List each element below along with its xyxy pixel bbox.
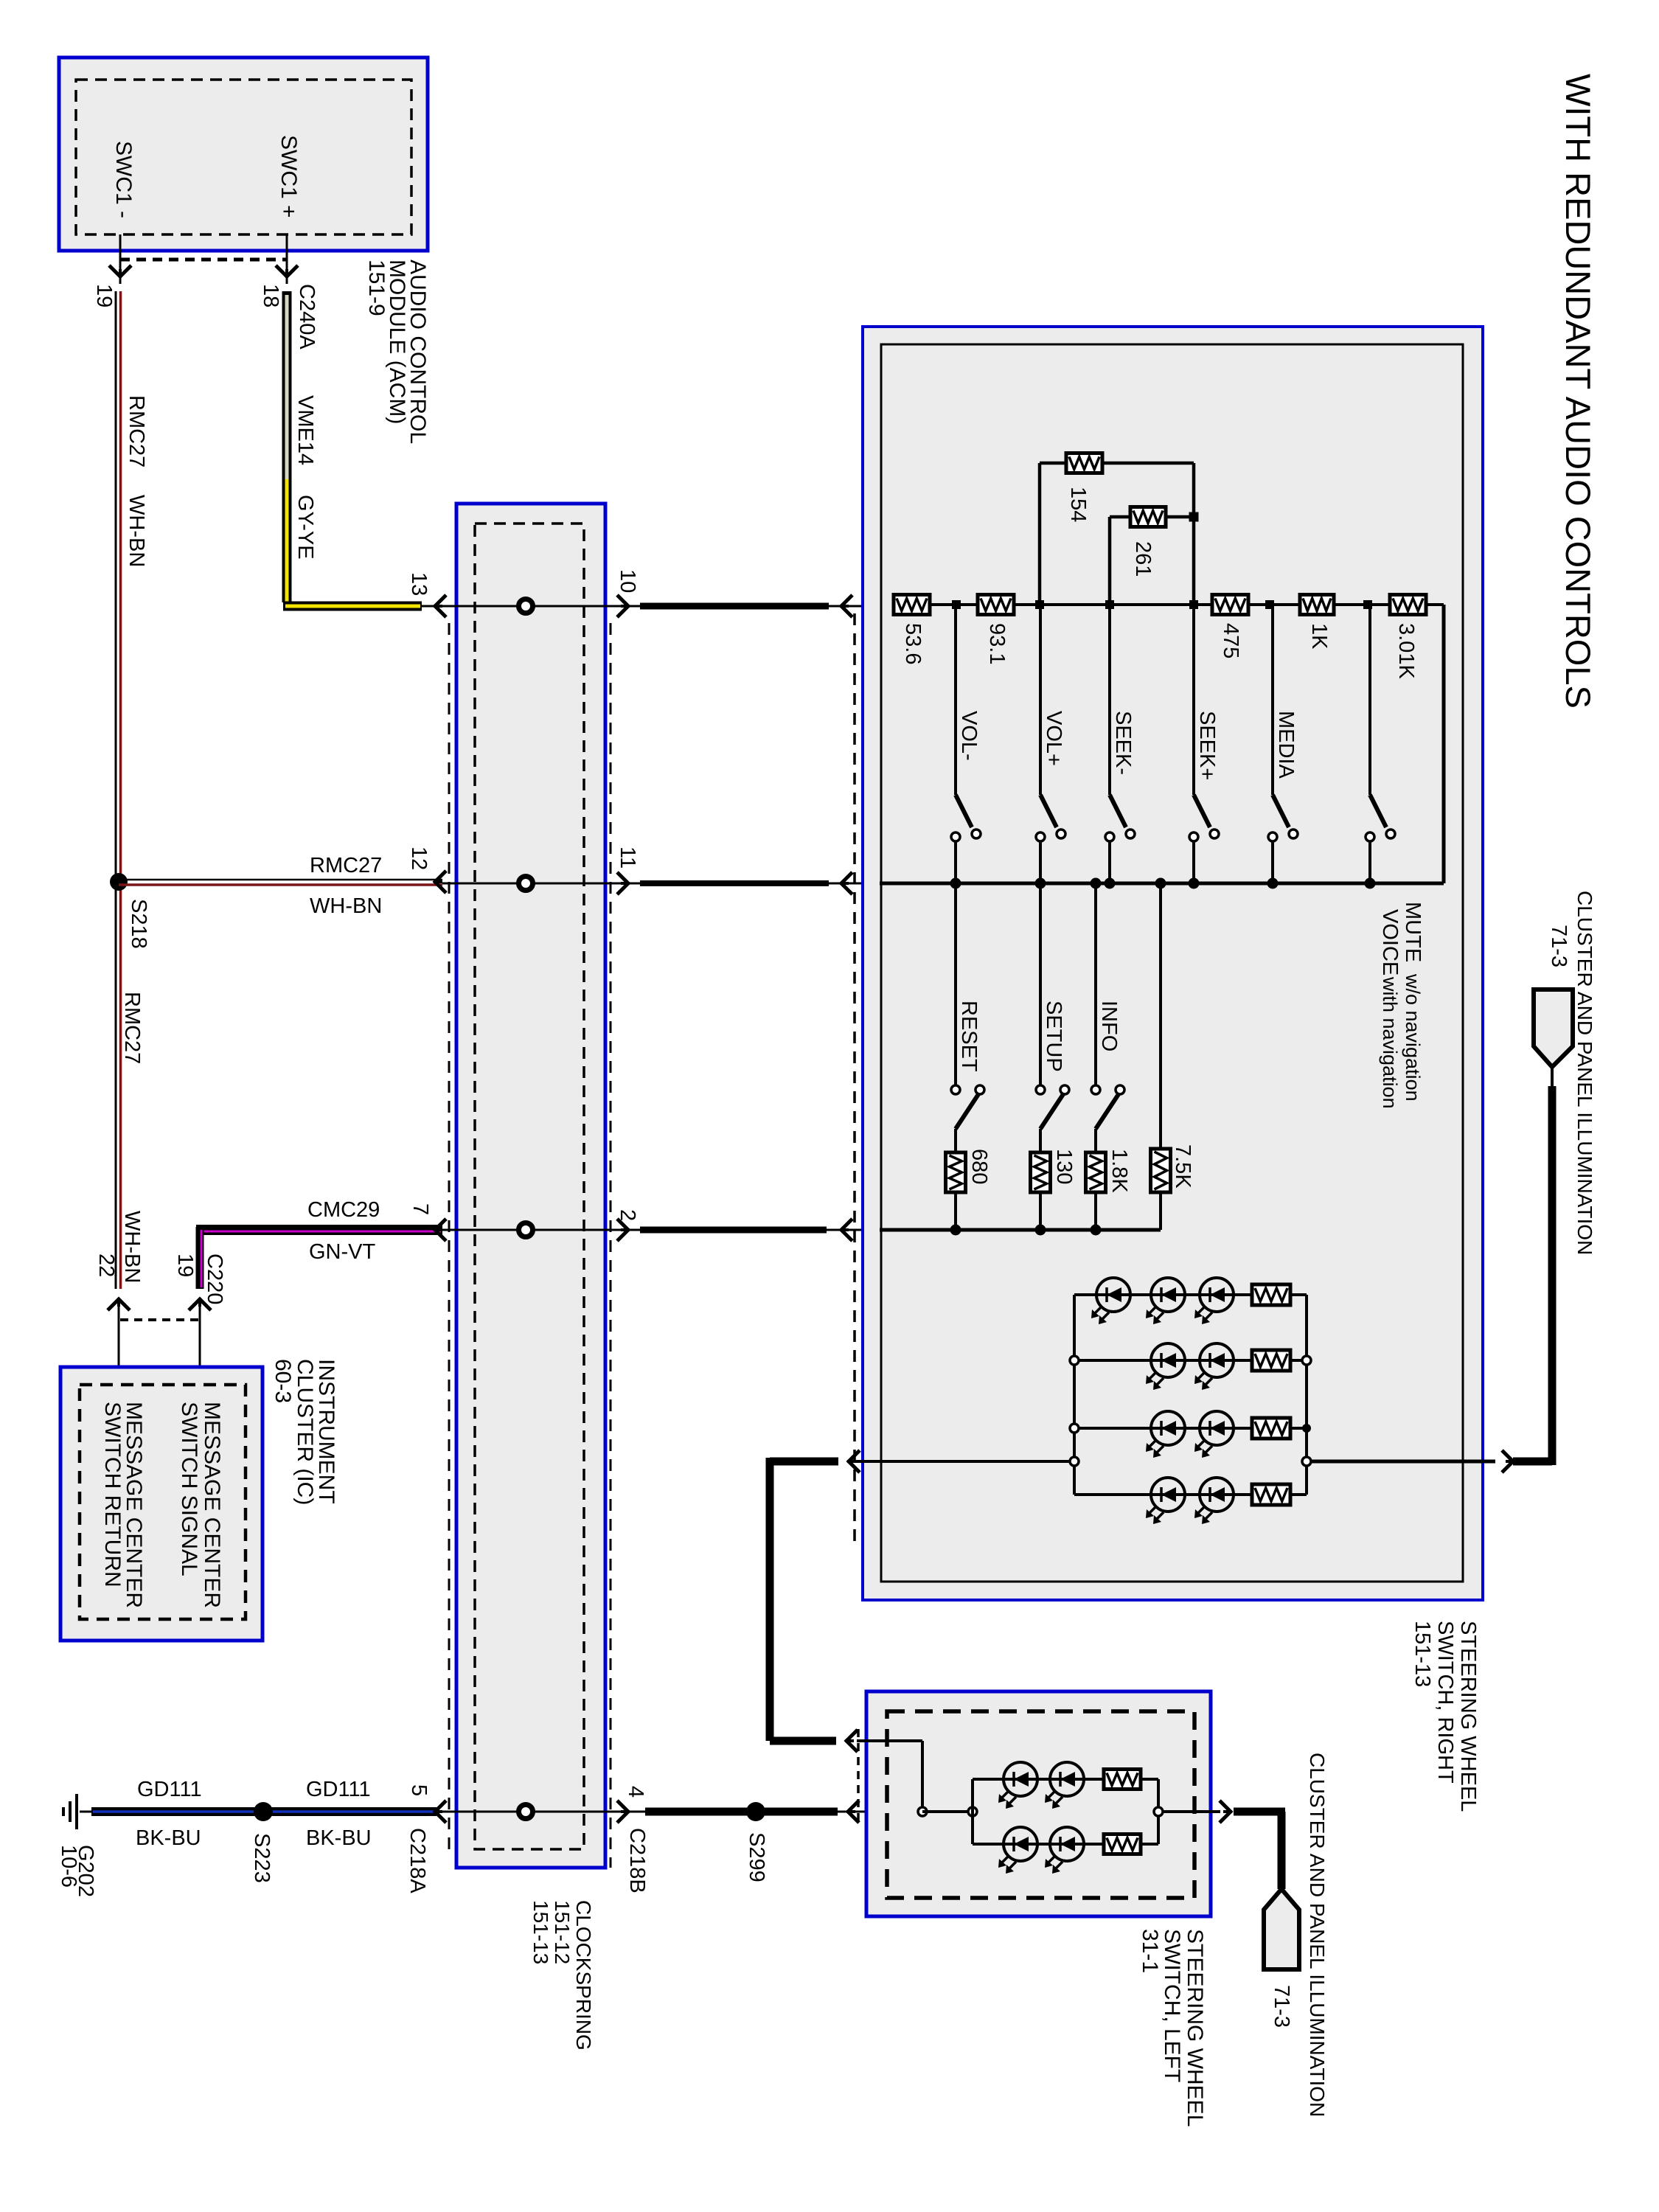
wire row pin12-pin11 through clockspring: [442, 883, 640, 885]
arrow into steering wheel switch (row 2): [841, 1219, 852, 1241]
LED row 3: [1074, 1427, 1307, 1430]
wire VME14 GY-YE from ACM pin 18: [282, 291, 292, 602]
svg-text:GD111: GD111: [137, 1778, 202, 1801]
svg-text:w/o navigation: w/o navigation: [1402, 973, 1424, 1102]
switch common bus (wire 11): [880, 882, 1444, 886]
wire GD111 BK-BU segment 1: [91, 1807, 255, 1816]
svg-text:151-9: 151-9: [364, 260, 389, 316]
svg-text:C218B: C218B: [625, 1828, 649, 1893]
svg-text:5: 5: [407, 1784, 431, 1796]
illumination feed inside left box: [857, 1739, 922, 1742]
svg-text:RMC27: RMC27: [310, 854, 382, 877]
resistor 3.01K: [1390, 595, 1426, 615]
svg-text:SETUP: SETUP: [1042, 1001, 1065, 1072]
svg-text:GN-VT: GN-VT: [309, 1240, 376, 1264]
svg-text:13: 13: [407, 572, 431, 596]
svg-text:S223: S223: [250, 1833, 274, 1883]
svg-text:RMC27: RMC27: [125, 395, 148, 467]
illumination feed entry (left): [854, 1460, 1074, 1463]
svg-text:CLUSTER AND PANEL ILLUMINATION: CLUSTER AND PANEL ILLUMINATION: [1306, 1753, 1329, 2117]
STEERING WHEEL SWITCH RIGHT box: [863, 327, 1483, 1600]
switch VOL-: [954, 605, 957, 795]
svg-text:7: 7: [408, 1203, 432, 1215]
ACM inner dashed box: [76, 80, 411, 234]
resistor 1K: [1300, 595, 1334, 615]
left box LED bus: [971, 1779, 974, 1844]
svg-text:CLOCKSPRING: CLOCKSPRING: [572, 1900, 595, 2051]
off-page connector CLUSTER AND PANEL ILLUMINATION 71-3 (right): [1534, 990, 1573, 1067]
arrow into steering wheel switch (row 11): [841, 872, 852, 894]
svg-text:19: 19: [92, 284, 116, 307]
arrow at IC pin 19: [199, 1302, 201, 1385]
svg-text:STEERING WHEEL: STEERING WHEEL: [1183, 1929, 1207, 2126]
svg-text:SWITCH, LEFT: SWITCH, LEFT: [1160, 1929, 1184, 2082]
IC inner dashed box: [80, 1385, 246, 1619]
thick harness wire row 4 (to S299): [645, 1808, 749, 1816]
LED row 3 resistor: [1252, 1418, 1290, 1439]
switch RESET: [954, 883, 957, 1085]
svg-text:VOL+: VOL+: [1042, 711, 1065, 766]
svg-text:1K: 1K: [1307, 623, 1331, 650]
svg-text:VOICE: VOICE: [1378, 909, 1402, 975]
connector C218B dashed line (right): [610, 623, 612, 1868]
svg-text:MESSAGE CENTER: MESSAGE CENTER: [200, 1402, 224, 1608]
LED row 1 resistor: [1252, 1284, 1290, 1305]
svg-text:STEERING WHEEL: STEERING WHEEL: [1456, 1621, 1480, 1812]
wire row pin13-pin10 through clockspring: [422, 605, 640, 608]
arrow into clockspring pin 7: [435, 1219, 446, 1241]
resistor 93.1: [978, 595, 1014, 615]
left box output node: [1154, 1807, 1163, 1816]
arrow at IC pin 22: [118, 1302, 120, 1385]
svg-text:7.5K: 7.5K: [1171, 1144, 1194, 1189]
svg-text:C218A: C218A: [406, 1828, 429, 1893]
resistor 680: [946, 1152, 966, 1192]
svg-text:19: 19: [173, 1253, 197, 1277]
arrow into clockspring pin 13: [435, 595, 446, 617]
svg-text:SEEK+: SEEK+: [1195, 711, 1219, 780]
left box LED row bottom resistor: [1104, 1834, 1141, 1854]
junction of 154/261 right legs: [1189, 512, 1199, 522]
svg-text:1.8K: 1.8K: [1107, 1149, 1131, 1193]
LED row 2 resistor: [1252, 1350, 1290, 1371]
svg-text:CMC29: CMC29: [307, 1198, 380, 1222]
svg-text:130: 130: [1052, 1149, 1076, 1184]
INSTRUMENT CLUSTER (IC) box: [60, 1367, 262, 1641]
LED array right bus: [1305, 1295, 1308, 1495]
LED row 4: [1074, 1493, 1307, 1496]
switch SETUP: [1039, 883, 1042, 1085]
svg-text:CLUSTER AND PANEL ILLUMINATION: CLUSTER AND PANEL ILLUMINATION: [1573, 891, 1596, 1255]
wire row pin5-pin4 through clockspring: [437, 1811, 645, 1813]
svg-text:WH-BN: WH-BN: [120, 1211, 144, 1283]
ACM module box (AUDIO CONTROL MODULE): [59, 58, 428, 251]
switch VOL+: [1039, 605, 1042, 795]
svg-text:S299: S299: [745, 1832, 768, 1882]
svg-text:60-3: 60-3: [271, 1359, 295, 1403]
left switch inner dashed box: [887, 1711, 1194, 1898]
chain end wire to bus corner: [1426, 603, 1444, 606]
arrow into clockspring pin 12: [435, 871, 446, 893]
wire RMC27 WH-BN branch to clockspring pin 12: [119, 879, 442, 881]
svg-text:31-1: 31-1: [1138, 1929, 1162, 1973]
connector C218A dashed line (left): [448, 623, 451, 1854]
svg-text:with navigation: with navigation: [1379, 976, 1401, 1109]
STEERING WHEEL SWITCH LEFT box: [866, 1691, 1211, 1916]
left switch connector dashed line: [857, 1729, 860, 1823]
switch SEEK+: [1192, 605, 1195, 795]
svg-text:VME14: VME14: [293, 395, 317, 465]
svg-text:151-13: 151-13: [1411, 1621, 1434, 1687]
svg-text:GY-YE: GY-YE: [293, 495, 317, 560]
svg-text:3.01K: 3.01K: [1394, 623, 1418, 679]
wire VME14 GY-YE horizontal to clockspring: [283, 602, 422, 611]
bypass resistor 261: [1108, 517, 1112, 605]
thick harness wire row 2: [640, 1227, 827, 1234]
svg-text:18: 18: [259, 284, 282, 307]
off-page connector CLUSTER AND PANEL ILLUMINATION 71-3 (bottom): [1264, 1889, 1299, 1969]
LED row 1: [1074, 1293, 1307, 1296]
arrow out of left box (illumination out): [1220, 1801, 1231, 1823]
wire CMC29 GN-VT horizontal: [196, 1225, 442, 1235]
left box LED row top resistor: [1104, 1770, 1141, 1790]
resistor 475: [1212, 595, 1248, 615]
svg-text:93.1: 93.1: [985, 623, 1009, 664]
svg-text:151-13: 151-13: [529, 1900, 552, 1964]
resistor 53.6: [894, 595, 930, 615]
thick harness wire row 11: [640, 880, 829, 886]
svg-text:RESET: RESET: [957, 1001, 981, 1072]
svg-text:12: 12: [407, 846, 431, 870]
svg-text:WH-BN: WH-BN: [310, 894, 382, 918]
wire GD111 BK-BU segment 2: [271, 1807, 437, 1816]
chain tap junctions: [952, 600, 961, 609]
svg-text:SWITCH RETURN: SWITCH RETURN: [100, 1402, 125, 1587]
LED bus junction circles: [1070, 1356, 1079, 1365]
arrow into steering wheel switch (row 10): [841, 595, 852, 617]
svg-text:MEDIA: MEDIA: [1274, 711, 1298, 779]
svg-text:MUTE: MUTE: [1401, 902, 1425, 962]
switch SEEK-: [1108, 605, 1111, 795]
svg-text:22: 22: [94, 1253, 118, 1277]
switch MEDIA: [1271, 605, 1274, 795]
LED row 4 resistor: [1252, 1484, 1290, 1505]
splice S223: [254, 1802, 273, 1821]
thick wire to cluster illumination connector: [1513, 1458, 1552, 1466]
illumination exit to cluster (right): [1307, 1460, 1495, 1464]
connector dashed line at right switch box left edge: [853, 613, 856, 1548]
svg-text:C220: C220: [203, 1253, 226, 1304]
arrow into steering wheel switch left (illumination return): [848, 1801, 859, 1823]
svg-text:4: 4: [624, 1786, 647, 1798]
left box LED row bottom: [973, 1843, 1158, 1846]
LED row 2: [1074, 1359, 1307, 1362]
CLOCKSPRING box: [456, 504, 605, 1868]
svg-text:71-3: 71-3: [1270, 1985, 1293, 2028]
node circles in left box: [918, 1807, 927, 1816]
connector C220 dashed line: [120, 1318, 200, 1321]
svg-text:C240A: C240A: [295, 284, 319, 349]
svg-text:154: 154: [1066, 487, 1090, 522]
inner black rect of right switch box: [881, 344, 1463, 1582]
svg-text:SWC1 +: SWC1 +: [276, 135, 301, 218]
wire row pin7-pin2 through clockspring: [442, 1229, 640, 1231]
svg-text:BK-BU: BK-BU: [306, 1826, 372, 1850]
thick wire S299 to steering wheel switch left: [764, 1808, 838, 1816]
svg-text:680: 680: [967, 1149, 991, 1184]
svg-text:71-3: 71-3: [1547, 925, 1571, 967]
svg-text:10: 10: [616, 569, 639, 593]
svg-text:SWITCH SIGNAL: SWITCH SIGNAL: [177, 1402, 201, 1576]
lower bus (wire 2): [880, 1228, 1161, 1232]
svg-text:10-6: 10-6: [57, 1845, 80, 1888]
arrow into clockspring pin 5: [435, 1801, 446, 1823]
svg-text:SWC1 -: SWC1 -: [111, 141, 136, 218]
svg-text:WITH REDUNDANT AUDIO CONTROLS: WITH REDUNDANT AUDIO CONTROLS: [1559, 74, 1598, 709]
bypass resistor 154: [1038, 463, 1042, 605]
thick harness wire row 10: [640, 603, 829, 610]
wire RMC27 WH-BN vertical from ACM pin 19: [115, 291, 117, 1289]
wire CMC29 GN-VT vertical to IC pin 19: [196, 1227, 204, 1289]
resistor 1.8K: [1086, 1152, 1106, 1192]
arrow into right box (illumination feed): [849, 1450, 860, 1472]
switch INFO: [1094, 883, 1097, 1085]
switch MUTE/VOICE: [1368, 605, 1371, 795]
ground G202: [80, 1811, 93, 1813]
svg-text:475: 475: [1219, 623, 1242, 658]
arrow into left switch box (illumination): [846, 1730, 858, 1752]
splice S218: [110, 873, 128, 891]
svg-text:VOL-: VOL-: [957, 711, 981, 761]
pin 18 stub and arrow at C240A: [286, 234, 288, 284]
splice S299: [746, 1802, 765, 1821]
svg-text:S218: S218: [127, 899, 150, 949]
svg-text:BK-BU: BK-BU: [136, 1826, 201, 1850]
resistor 7.5K: [1159, 883, 1162, 1149]
svg-text:SEEK-: SEEK-: [1111, 711, 1135, 775]
LED array left bus: [1073, 1295, 1076, 1495]
svg-text:SWITCH, RIGHT: SWITCH, RIGHT: [1433, 1621, 1457, 1784]
clockspring inner dashed box: [475, 524, 584, 1849]
thick illumination feed wire: [770, 1458, 838, 1466]
chain wire with taps: [1014, 603, 1212, 606]
resistor 130: [1031, 1152, 1051, 1192]
svg-text:261: 261: [1131, 541, 1155, 577]
svg-text:WH-BN: WH-BN: [125, 495, 148, 567]
svg-text:INFO: INFO: [1097, 1001, 1121, 1051]
connector C240A dashed line: [120, 258, 287, 262]
svg-text:11: 11: [616, 846, 639, 869]
svg-text:53.6: 53.6: [901, 623, 925, 664]
svg-text:151-12: 151-12: [551, 1900, 574, 1964]
svg-text:RMC27: RMC27: [120, 992, 144, 1064]
pin 19 stub and arrow at C240A: [119, 234, 122, 284]
svg-text:GD111: GD111: [306, 1778, 371, 1801]
svg-text:CLUSTER (IC): CLUSTER (IC): [293, 1359, 317, 1505]
thick wire to 71-3 connector (bottom): [1234, 1808, 1285, 1816]
left box LED row top: [973, 1778, 1158, 1781]
